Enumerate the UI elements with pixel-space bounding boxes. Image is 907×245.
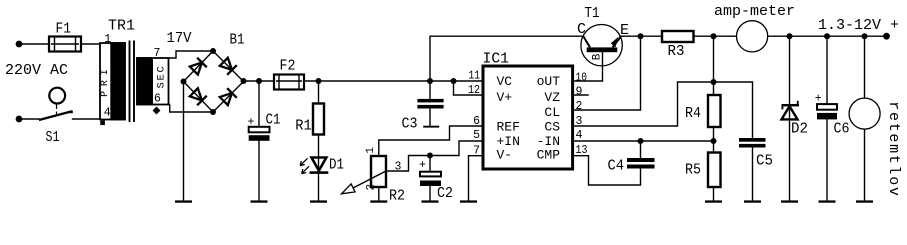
svg-text:C1: C1	[266, 111, 281, 128]
svg-text:10: 10	[576, 71, 588, 84]
wire C3 branch	[429, 81, 431, 126]
svg-text:4: 4	[104, 107, 111, 120]
rotated labels	[100, 53, 902, 197]
svg-text:B: B	[592, 53, 604, 60]
wire 220V top	[19, 43, 49, 45]
ground R2	[370, 200, 387, 202]
node D2 tap	[787, 33, 793, 39]
svg-text:V+: V+	[497, 90, 513, 105]
svg-text:C6: C6	[834, 120, 850, 137]
svg-text:7: 7	[473, 145, 480, 158]
wire main DC rail	[244, 80, 482, 82]
svg-text:R2: R2	[389, 188, 405, 205]
svg-text:R1: R1	[295, 118, 312, 135]
wire pin10 to base	[574, 52, 603, 81]
svg-text:+: +	[248, 116, 255, 129]
wire R4 R5 branch	[713, 36, 715, 200]
amp-meter	[737, 21, 768, 52]
svg-text:C4: C4	[608, 158, 625, 175]
capacitor C1	[249, 127, 270, 141]
svg-text:9: 9	[576, 85, 583, 98]
transformer TR1	[100, 41, 169, 126]
node R4 R5 mid	[711, 138, 717, 144]
wire VC V+ pins 11 12	[454, 81, 482, 95]
svg-text:REF: REF	[497, 120, 520, 135]
IC1 inner labels	[497, 74, 561, 162]
wire R1 D1 branch	[318, 81, 320, 200]
svg-text:D2: D2	[791, 120, 808, 137]
diode bridge bottom-left	[189, 88, 207, 106]
capacitor C4	[627, 158, 655, 169]
wire C1 branch	[258, 81, 260, 200]
svg-text:CL: CL	[544, 105, 560, 120]
bridge B1	[184, 51, 244, 112]
svg-text:VZ: VZ	[544, 90, 560, 105]
svg-text:1: 1	[104, 33, 111, 46]
svg-text:1.3-12V +: 1.3-12V +	[818, 17, 899, 34]
wire pin9 stub	[574, 94, 589, 96]
wire pin4 to divider	[574, 140, 714, 142]
wire 220V bottom to switch	[19, 118, 39, 120]
svg-text:C: C	[577, 21, 586, 38]
svg-text:12: 12	[468, 84, 480, 97]
wire pin13 C4 loop	[574, 141, 641, 185]
svg-text:6: 6	[473, 115, 480, 128]
wire secondary pin7 to bridge top	[169, 51, 214, 58]
node C4 top	[638, 138, 644, 144]
svg-text:13: 13	[576, 144, 588, 157]
ground C6	[819, 200, 836, 202]
svg-text:retemtlov: retemtlov	[885, 101, 902, 197]
svg-text:amp-meter: amp-meter	[714, 3, 795, 20]
svg-text:7: 7	[154, 47, 161, 60]
svg-text:C2: C2	[437, 185, 453, 202]
svg-text:SEC: SEC	[155, 64, 167, 88]
svg-text:5: 5	[473, 129, 480, 142]
wire pin3 to R4 top	[574, 82, 714, 126]
svg-text:3: 3	[395, 161, 402, 174]
terminal dot top left	[16, 41, 23, 48]
node R1 tap	[316, 78, 322, 84]
node bridge right	[241, 78, 247, 84]
node emitter pin2	[638, 33, 644, 39]
node R4 rail tap	[711, 33, 717, 39]
svg-text:VC: VC	[497, 74, 513, 89]
ground symbols	[175, 126, 873, 203]
LED D1	[300, 158, 328, 174]
svg-text:F2: F2	[280, 58, 296, 75]
svg-text:C5: C5	[756, 153, 773, 170]
wire voltmeter branch	[864, 36, 866, 200]
ground R5	[705, 200, 722, 202]
fuse F1	[49, 37, 81, 52]
wire C5 branch	[714, 82, 753, 200]
svg-text:V-: V-	[497, 148, 513, 163]
resistor R5	[708, 153, 721, 188]
svg-text:S1: S1	[46, 129, 60, 146]
ground C2	[422, 200, 439, 202]
diode bridge top-right	[219, 57, 237, 75]
wire fuse F1 to TR1 pin1	[81, 43, 100, 45]
wire R2 bottom to ground	[378, 187, 380, 200]
node VC tap	[451, 78, 457, 84]
polarity diamond secondary	[153, 107, 161, 115]
polarity square primary	[100, 121, 105, 126]
svg-text:CS: CS	[544, 120, 560, 135]
transistor T1	[581, 25, 622, 66]
terminal output plus	[883, 33, 890, 40]
svg-text:B1: B1	[230, 32, 245, 49]
svg-text:D1: D1	[329, 157, 344, 174]
terminal dot bottom left	[16, 116, 23, 123]
wire pin5 to R2 wiper	[386, 141, 482, 171]
svg-text:11: 11	[469, 69, 481, 82]
capacitor C5	[739, 138, 766, 148]
capacitor C6	[817, 104, 837, 119]
node bridge bottom	[210, 109, 216, 115]
wire switch to TR1 pin4	[73, 118, 101, 120]
svg-text:4: 4	[576, 129, 583, 142]
ground C3 mini	[423, 126, 439, 128]
capacitor C2	[420, 172, 441, 186]
wire emitter output rail	[620, 35, 887, 37]
svg-text:IC1: IC1	[483, 51, 510, 68]
svg-text:oUT: oUT	[537, 74, 561, 89]
wire pin6 to R2 top	[379, 126, 482, 156]
ground pin7	[460, 200, 477, 202]
svg-text:R3: R3	[668, 43, 685, 60]
svg-text:C3: C3	[402, 116, 418, 133]
svg-text:CMP: CMP	[537, 148, 561, 163]
node C6 tap	[824, 33, 830, 39]
ground bridge	[175, 200, 192, 202]
svg-text:2: 2	[366, 184, 378, 191]
plus signs	[248, 93, 822, 173]
voltmeter	[849, 98, 880, 129]
svg-text:17V: 17V	[167, 30, 192, 47]
node R4 top	[711, 79, 717, 85]
wire collector rail	[430, 36, 583, 81]
resistor R1	[313, 104, 324, 135]
wire pin2 to emitter node	[574, 36, 641, 110]
svg-text:T1: T1	[585, 5, 600, 22]
node C3 collector tap	[427, 78, 433, 84]
capacitor C3	[417, 99, 443, 109]
node bridge left	[181, 79, 187, 85]
IC1 regulator box	[483, 66, 573, 169]
svg-text:220V AC: 220V AC	[5, 62, 68, 79]
svg-text:E: E	[620, 22, 629, 39]
ground D2	[781, 200, 798, 202]
ground C1	[251, 200, 268, 202]
wire bridge left node to ground	[183, 82, 185, 201]
svg-text:6: 6	[154, 93, 161, 106]
fuse F2	[274, 75, 304, 90]
svg-text:R4: R4	[685, 105, 701, 122]
svg-text:2: 2	[576, 100, 583, 113]
wire pin7 to ground	[469, 156, 482, 200]
svg-text:1: 1	[365, 147, 377, 154]
ground C5	[744, 200, 761, 202]
ground D1	[310, 200, 327, 202]
wire D2 branch	[789, 36, 791, 200]
potentiometer R2	[342, 156, 387, 194]
zener D2	[782, 101, 800, 120]
node C1 tap	[256, 78, 262, 84]
node bridge top	[210, 48, 216, 54]
resistor R3	[662, 31, 694, 42]
node voltmeter tap	[862, 33, 868, 39]
wire secondary pin6 to bridge bottom	[169, 105, 214, 113]
svg-text:+: +	[419, 159, 426, 172]
svg-text:F1: F1	[56, 20, 72, 37]
svg-text:3: 3	[576, 115, 583, 128]
diode bridge top-left	[189, 58, 207, 76]
wire C2 branch	[429, 156, 431, 201]
svg-text:R5: R5	[685, 161, 701, 178]
diode bridge bottom-right	[219, 88, 237, 106]
node C2 top	[427, 153, 433, 159]
svg-text:PRI: PRI	[100, 64, 111, 96]
ground voltmeter	[856, 200, 873, 202]
svg-text:TR1: TR1	[108, 18, 135, 35]
svg-text:+: +	[815, 93, 822, 106]
wire C6 branch	[826, 36, 828, 200]
switch S1	[39, 88, 73, 120]
resistor R4	[708, 95, 721, 127]
